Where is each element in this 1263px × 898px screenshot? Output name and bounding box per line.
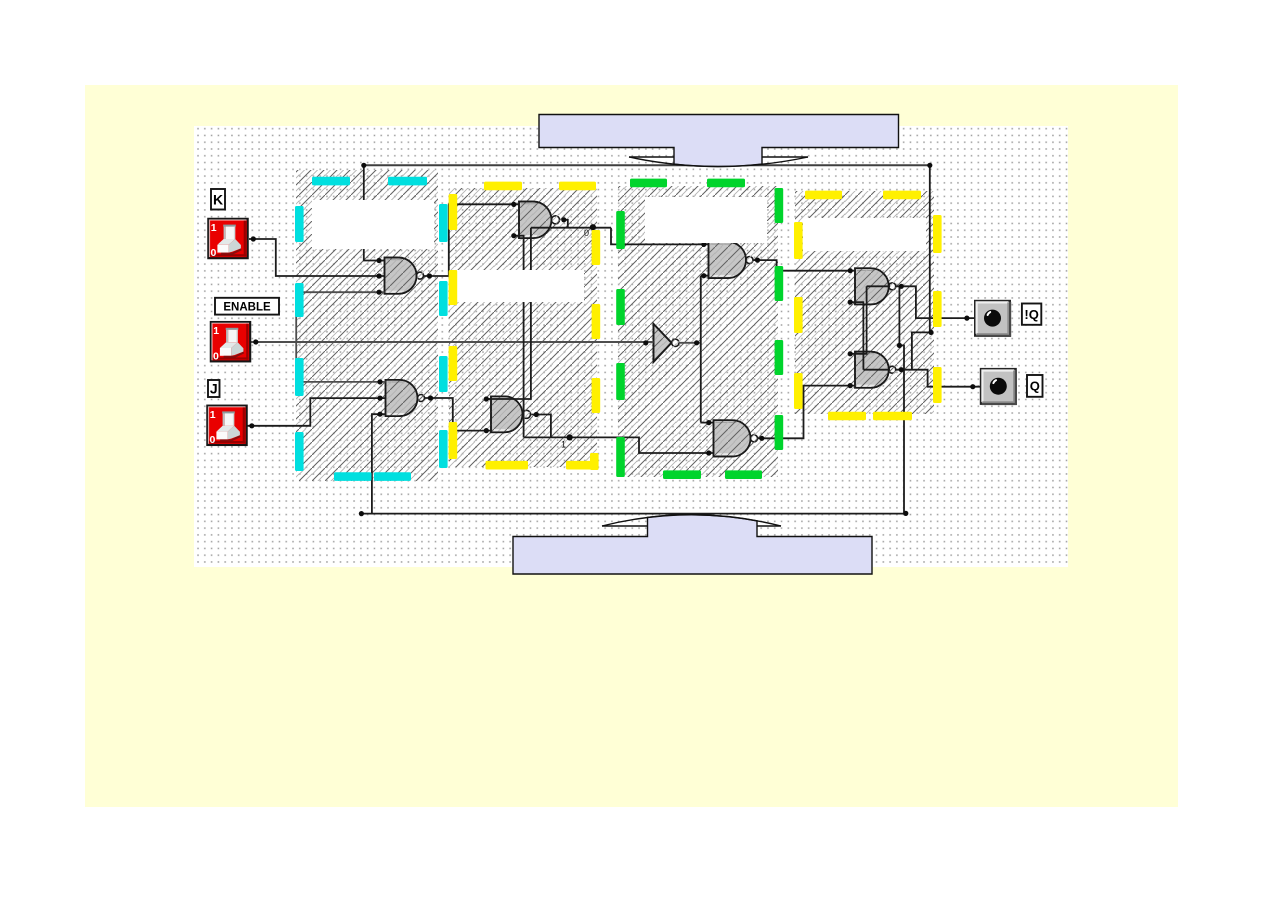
node U2 pin3 [377, 412, 382, 417]
label Q [1027, 375, 1043, 397]
node top feedback corner [927, 163, 932, 168]
toggle switch ENABLE [211, 322, 250, 362]
wire Q feedback to U1 pin1 [364, 165, 385, 260]
hatch region 4 (yellow group 2) [795, 191, 934, 414]
wire ENABLE to U1 pin3 [296, 291, 384, 293]
wire Q feedback right drop [929, 165, 931, 332]
wire Q feedback top run [364, 164, 930, 166]
wire U4 out to U3 pin2 [514, 236, 524, 438]
wire U6 out to U8 pin2 [757, 386, 855, 439]
node inverter in [643, 340, 648, 345]
bottom banner callout [513, 515, 872, 574]
state label 1 [561, 434, 573, 449]
schematic canvas [194, 126, 1068, 567]
wire U8 out to U7 pin2 [850, 302, 863, 370]
wire inverter output [679, 342, 701, 344]
node NQ LED in [964, 316, 969, 321]
wire U1 out to U3 pin1 [424, 204, 519, 276]
wire NQ feedback to U2 pin3 [372, 414, 386, 513]
group outline yellow 1 (master latch) [484, 182, 522, 191]
svg-text:!Q: !Q [1024, 307, 1038, 322]
node U1 pin1 [376, 258, 381, 263]
wire clockbar to U5 pin2 [701, 275, 709, 277]
NAND gate U3 (master latch top) [519, 202, 560, 239]
node U3 out [561, 217, 566, 222]
node U2 out [428, 395, 433, 400]
wire clockbar to U6 pin1 [701, 422, 714, 424]
wire clockbar vertical [700, 276, 702, 423]
group outline yellow 2 (output latch) [805, 191, 842, 200]
white label box 2 [457, 270, 584, 302]
node U6 pin1 [706, 420, 711, 425]
wire ENABLE to U2 pin1 [296, 381, 385, 383]
yellow worksheet [85, 85, 1178, 807]
svg-text:ENABLE: ENABLE [223, 301, 271, 313]
node bottom wire corner [903, 511, 908, 516]
state label 0 [584, 224, 596, 238]
NAND gate U8 (output latch bottom) [855, 352, 896, 388]
NAND gate U5 (slave steer top) [709, 242, 754, 278]
wire U7 out crossback [867, 285, 890, 287]
svg-text:K: K [213, 191, 223, 207]
wire ENABLE branch vertical [295, 292, 297, 382]
top banner callout [539, 115, 899, 167]
node U7 out [899, 284, 904, 289]
white label box 3 [645, 197, 767, 243]
NAND gate U2 (J input, 3-in) [386, 380, 425, 416]
wire U3 out stub [564, 220, 568, 228]
wire U4 out stub [531, 415, 551, 438]
wire U8 out crossback [863, 369, 890, 371]
node U1 pin3 [376, 290, 381, 295]
svg-text:0: 0 [213, 350, 219, 362]
node U3 pin1 [511, 202, 516, 207]
LED indicator Q [981, 369, 1017, 405]
node U8 out [899, 367, 904, 372]
wire J to U2 pin2 [247, 398, 386, 426]
wire U3 out to U5 pin1 [611, 228, 709, 245]
wire U8 out to Q LED [895, 370, 980, 387]
label K [211, 189, 225, 210]
node U5 out [755, 258, 760, 263]
node bottom wire end [359, 511, 364, 516]
svg-text:J: J [210, 381, 218, 397]
node U4 out [534, 412, 539, 417]
node U4 pin1 [484, 396, 489, 401]
LED indicator !Q [975, 301, 1011, 337]
label !Q [1022, 304, 1041, 325]
svg-text:0: 0 [210, 434, 216, 446]
wire U4 pin1 stub [486, 398, 491, 400]
node U1 pin2 [376, 273, 381, 278]
wire U2 out to U4 pin2 [425, 398, 492, 431]
node NQ feedback corner [897, 343, 902, 348]
node Q feedback corner [928, 330, 933, 335]
hatch region 1 (cyan group) [296, 170, 438, 481]
wire NQ feedback bottom run [361, 286, 904, 513]
svg-text:1: 1 [213, 325, 219, 337]
white label box 1 [312, 200, 434, 249]
toggle switch K [208, 219, 247, 259]
wire U4 out to U6 pin2 [524, 437, 714, 453]
wire U5 out to U7 pin1 [753, 260, 855, 271]
node ENABLE out [253, 339, 258, 344]
node U3 pin2 [511, 233, 516, 238]
node Q LED in [970, 384, 975, 389]
NOT gate U9 (clock inverter) [654, 324, 680, 362]
node U8 pin2 [848, 383, 853, 388]
hatch region 3 (green group) [618, 186, 778, 477]
label ENABLE [215, 298, 279, 315]
NAND gate U1 (K input, 3-in) [385, 258, 424, 294]
node top feedback left [361, 163, 366, 168]
hatch region 2 (yellow group 1) [449, 188, 597, 467]
node U5 pin1 [701, 242, 706, 247]
node J out [249, 423, 254, 428]
node inverter out [694, 340, 699, 345]
node U6 out [759, 436, 764, 441]
wire U3 out run [531, 227, 611, 229]
white label box 4 [803, 218, 926, 251]
svg-text:0: 0 [211, 247, 217, 259]
svg-text:1: 1 [211, 222, 217, 234]
node U7 pin1 [848, 268, 853, 273]
NAND gate U4 (master latch bottom) [491, 396, 531, 432]
wire Q feedback join [912, 332, 931, 369]
node U5 pin2 [701, 273, 706, 278]
NAND gate U7 (output latch top) [855, 268, 896, 304]
svg-text:0: 0 [584, 228, 589, 238]
wire ENABLE run to inverter [251, 341, 654, 343]
svg-text:1: 1 [561, 440, 566, 450]
node U4 pin2 [484, 428, 489, 433]
gate outline re-strokes [385, 202, 889, 457]
node U8 pin1 [848, 351, 853, 356]
node U2 pin2 [377, 396, 382, 401]
wire U7 out to NQ LED [895, 286, 974, 318]
node U1 out [427, 273, 432, 278]
toggle switch J [207, 406, 246, 446]
group outline cyan (input gates) [312, 177, 350, 186]
wire U7 out to U8 pin1 [850, 286, 866, 354]
svg-text:Q: Q [1030, 379, 1040, 394]
node K out [251, 236, 256, 241]
label J [208, 380, 220, 397]
grid dots [194, 126, 1068, 567]
node U7 pin2 [848, 300, 853, 305]
wire U3 out to U4 pin1 [486, 228, 531, 399]
NAND gate U6 (slave steer bottom) [714, 420, 758, 456]
svg-text:1: 1 [210, 409, 216, 421]
wire K to U1 pin2 [249, 239, 385, 276]
node U2 pin1 [377, 379, 382, 384]
group outline green (steering) [630, 179, 667, 188]
node U6 pin2 [706, 450, 711, 455]
